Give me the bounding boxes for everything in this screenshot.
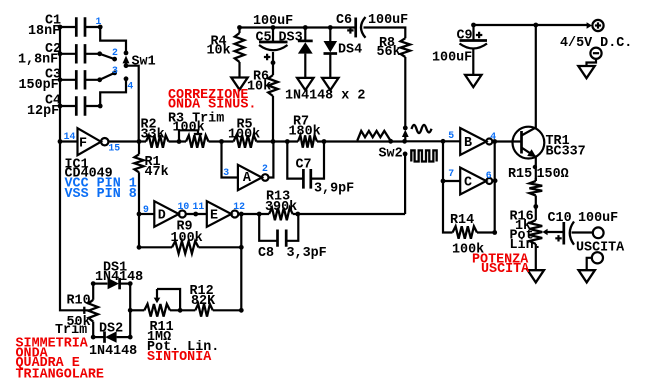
capacitor C2 [60, 44, 100, 63]
svg-text:C8: C8 [258, 246, 274, 261]
label E [210, 209, 218, 224]
svg-text:10k: 10k [207, 44, 231, 59]
label 4/5V D.C. [560, 36, 632, 51]
Sw1 contact 1 wire [100, 27, 126, 53]
wire C input drop [443, 141, 460, 181]
svg-text:1: 1 [96, 16, 102, 27]
switch Sw1 wiper arrow [123, 56, 130, 66]
junction node E out bus [239, 212, 244, 217]
label VCC PIN 1 [65, 177, 137, 192]
resistor R13 [269, 208, 293, 220]
junction node C7 right [322, 139, 327, 144]
label R4 [211, 34, 227, 49]
junction node R12 right [239, 308, 244, 313]
resistor R15 [529, 181, 542, 196]
trimmer R3 zigzag [186, 135, 209, 147]
junction node caps-bus C4 [58, 104, 63, 109]
label DS2 [99, 321, 123, 336]
triangle wave squiggle [357, 131, 390, 141]
pin 1 Sw1 [96, 16, 102, 27]
ground under DS3 [297, 78, 313, 90]
junction node squiggle end [388, 139, 393, 144]
junction node R5/R6/A-out [271, 139, 276, 144]
trimmer R10 [88, 300, 98, 322]
svg-text:100uF: 100uF [578, 211, 618, 226]
wire R14 left leg [443, 181, 453, 233]
junction node C7 left [285, 139, 290, 144]
wire TR1 emitter [535, 157, 537, 181]
label R9 [177, 219, 193, 234]
label R15 [508, 167, 532, 182]
label R6 [253, 70, 269, 85]
label C [464, 176, 472, 191]
R10 wiper T-bar [83, 307, 85, 314]
potentiometer R16 [529, 220, 542, 244]
wire R15 to R16 [535, 196, 537, 221]
op-amp inverter A [238, 165, 269, 190]
svg-text:3,3pF: 3,3pF [287, 246, 327, 261]
power feed arrowhead [587, 22, 592, 29]
Sw2 top contact node [403, 126, 408, 131]
trimmer R3 wiper loop [179, 130, 202, 141]
label R8 [379, 36, 395, 51]
pin 7 [448, 168, 454, 179]
label Sw2 [379, 146, 403, 161]
wire R9 left [139, 246, 172, 248]
svg-text:DS2: DS2 [99, 321, 123, 336]
label DS4 text [338, 43, 362, 58]
transistor TR1 [513, 127, 545, 159]
wire power bus [474, 24, 590, 26]
svg-text:B: B [464, 136, 472, 151]
diode DS4 [324, 28, 338, 78]
junction node diode box / R11 [128, 308, 133, 313]
wire R10 bottom [92, 322, 94, 338]
label R11 [150, 320, 174, 335]
op-amp inverter E [207, 201, 239, 227]
value R11 1M [147, 330, 171, 345]
value C4 12pF [27, 104, 59, 119]
svg-text:1N4148 x 2: 1N4148 x 2 [285, 88, 365, 103]
capacitor C1 [60, 17, 100, 36]
svg-text:2: 2 [262, 163, 268, 174]
label R14 [450, 213, 474, 228]
label A [243, 171, 252, 186]
svg-text:5: 5 [448, 130, 454, 141]
junction node R13 right [295, 212, 300, 217]
pin 4 [490, 131, 496, 142]
label R11 Pot. Lin. [147, 340, 219, 355]
wire R5-R7 [257, 140, 299, 142]
junction node R11 right [178, 308, 183, 313]
capacitor C7 [287, 142, 324, 189]
wire C6 to R8 [364, 28, 406, 39]
pin 9 [143, 204, 149, 215]
svg-text:2: 2 [112, 47, 118, 58]
red note ONDA [16, 346, 49, 361]
plus terminal 4/5V [592, 20, 603, 31]
value R12 82K [191, 294, 216, 309]
wire R6 bottom [272, 96, 274, 142]
junction node C5/R6 [271, 60, 276, 65]
label C9 [457, 28, 473, 43]
value R2 33k [141, 127, 165, 142]
ground under DS4 [322, 78, 338, 90]
wire R16 to ground [535, 244, 537, 270]
Sw2 lower contact node [403, 152, 408, 157]
wire right bus [494, 142, 496, 233]
svg-text:150pF: 150pF [19, 78, 59, 93]
capacitor C10 (polarized) [564, 222, 574, 245]
pin 4 Sw1 [127, 80, 133, 91]
value R3 100k [173, 121, 205, 136]
pin 2 Sw1 [112, 47, 118, 58]
capacitor C4 [60, 96, 100, 115]
svg-text:9: 9 [143, 204, 149, 215]
red note CORREZIONE [168, 88, 248, 103]
value R4 10k [207, 44, 231, 59]
svg-text:3,9pF: 3,9pF [314, 182, 354, 197]
label D [158, 209, 166, 224]
value C5 100uF [253, 14, 293, 29]
wire diode box right stub [129, 284, 131, 338]
wire A output up [269, 142, 274, 178]
wire R11-R12 [170, 309, 195, 311]
label CD4049 [65, 167, 113, 182]
svg-text:4/5V D.C.: 4/5V D.C. [560, 36, 632, 51]
wire R14 right [477, 231, 495, 233]
label B [464, 136, 472, 151]
junction node collector/power [533, 23, 538, 28]
junction node top bus C5 [271, 25, 276, 30]
Sw1 contact 1 node [98, 25, 129, 56]
resistor R1 [134, 154, 143, 172]
svg-text:E: E [210, 209, 218, 224]
wire C output [492, 180, 494, 182]
wire TR1 collector [535, 25, 537, 128]
svg-text:100k: 100k [171, 231, 203, 246]
red note SIMMETRIA [16, 336, 89, 351]
junction node caps-bus C3 [58, 77, 63, 82]
wire left vertical bus (F input / caps / feedback) [60, 27, 89, 310]
red note QUADRA E [16, 356, 80, 371]
label TR1 [546, 134, 570, 149]
wire D input [139, 213, 154, 215]
wire F output [109, 140, 146, 142]
red note ONDA SINUS. [168, 98, 256, 113]
value C9 100uF [432, 50, 472, 65]
pin 10 [178, 201, 190, 212]
junction node C9 top [471, 23, 476, 28]
red note USCITA [481, 262, 530, 277]
wire R7 to Sw2 [317, 140, 405, 142]
C5 plus sign [264, 54, 270, 60]
svg-text:100uF: 100uF [432, 50, 472, 65]
svg-text:3: 3 [112, 65, 118, 76]
value C3 150pF [19, 78, 59, 93]
label C10 [548, 211, 572, 226]
wire R1 bottom to D input / R9 [138, 172, 140, 247]
Sw1 contact 2 node [97, 51, 117, 61]
output terminal USCITA [593, 227, 604, 238]
wire R12 right [213, 309, 242, 311]
junction node DS2 left [91, 335, 96, 340]
label R16 [510, 209, 534, 224]
value C7 3,9pF [314, 182, 354, 197]
junction node top bus R4 [237, 25, 242, 30]
Sw1 contact 3 wire [100, 73, 115, 80]
svg-text:10: 10 [178, 201, 190, 212]
svg-text:10k: 10k [247, 79, 271, 94]
svg-text:18nF: 18nF [28, 24, 60, 39]
wire to R11 [130, 309, 144, 311]
wire R3-R5 [209, 140, 234, 142]
wire Sw2 pole to B input [405, 140, 460, 142]
svg-text:14: 14 [64, 131, 76, 142]
Sw1 contact 4 node [98, 76, 129, 108]
R11 wiper arrow [154, 289, 161, 303]
C6 plus sign [347, 27, 353, 33]
Sw1 contact 4 wire [100, 79, 126, 106]
minus terminal [590, 48, 601, 59]
junction node C input [441, 179, 446, 184]
value C2 1,8nF [18, 52, 58, 67]
wire E-out bus down [240, 214, 242, 310]
svg-text:D: D [158, 209, 166, 224]
label C3 [45, 68, 61, 83]
svg-text:C5: C5 [256, 30, 272, 45]
svg-text:100k: 100k [228, 127, 260, 142]
label Sw1 [132, 55, 156, 70]
junction node D input [137, 212, 142, 217]
label R10 Trim [55, 323, 87, 338]
wire A input drop [222, 142, 238, 178]
svg-text:USCITA: USCITA [481, 262, 530, 277]
label R10 [67, 293, 91, 308]
svg-text:R15: R15 [508, 167, 532, 182]
diode DS3 [298, 28, 313, 78]
wire Sw2 square contact to E-out row [404, 154, 406, 214]
wire minus to ground [587, 59, 597, 66]
junction node R14 right [492, 230, 497, 235]
svg-text:82K: 82K [191, 294, 216, 309]
junction node F input [58, 139, 63, 144]
value R5 100k [228, 127, 260, 142]
svg-text:Sw2: Sw2 [379, 146, 403, 161]
label R3 Trim [168, 111, 224, 126]
Sw1 contact 3 node [97, 71, 117, 83]
diode DS1 [93, 278, 130, 289]
label R2 [141, 117, 157, 132]
label C2 [45, 42, 61, 57]
wire R4 to ground [238, 62, 240, 78]
svg-text:C6: C6 [336, 13, 352, 28]
value R16 1k [515, 219, 531, 234]
label R12 [190, 284, 214, 299]
svg-text:12pF: 12pF [27, 104, 59, 119]
pin 6 [486, 170, 492, 181]
label C4 [45, 94, 61, 109]
value DS1 1N4148 [95, 270, 143, 285]
op-amp inverter C [460, 168, 492, 195]
junction node B/C input bus [441, 139, 446, 144]
value R6 10k [247, 79, 271, 94]
junction node R15/R16 [533, 204, 538, 209]
svg-text:F: F [79, 136, 87, 151]
wire R15 top [535, 178, 537, 181]
svg-text:1,8nF: 1,8nF [18, 52, 58, 67]
capacitor C9 (polarized) [460, 25, 488, 75]
Sw1 contact 2 wire [100, 54, 115, 59]
junction node F out / R1 / R2 / Sw1 [137, 139, 142, 144]
junction node R2/R3 wiper [177, 139, 182, 144]
pin 11 [193, 201, 205, 212]
capacitor C6 (polarized) [356, 17, 366, 38]
junction node DS1 left [91, 281, 96, 286]
junction node top bus DS3 [303, 25, 308, 30]
wire C10 to output [572, 231, 593, 233]
pin 15 [108, 142, 120, 153]
C10 plus sign [555, 235, 561, 241]
junction node R9 left [137, 245, 142, 250]
resistor R4 [235, 28, 245, 63]
label R1 [145, 155, 161, 170]
op-amp inverter D [154, 201, 186, 227]
wire B output to TR1 base [493, 140, 522, 142]
sine wave symbol [412, 125, 432, 133]
label C6 [336, 13, 352, 28]
svg-text:180k: 180k [289, 124, 321, 139]
svg-text:100uF: 100uF [368, 13, 408, 28]
junction node top bus DS4 [328, 25, 333, 30]
svg-text:SINTONIA: SINTONIA [147, 350, 212, 365]
label USCITA [576, 240, 625, 255]
label R7 [293, 114, 309, 129]
label C1 [45, 14, 61, 29]
value R15 150 [537, 167, 569, 182]
resistor R2 [146, 135, 169, 147]
svg-text:C: C [464, 176, 472, 191]
svg-text:C10: C10 [548, 211, 572, 226]
svg-text:3: 3 [223, 167, 229, 178]
label DS3 text [279, 30, 303, 45]
Sw1 pole node [124, 63, 129, 68]
wire return to ground [587, 258, 592, 270]
svg-text:12: 12 [233, 201, 245, 212]
ground under minus terminal [578, 66, 594, 78]
ground under R16 [528, 270, 544, 282]
svg-text:15: 15 [108, 142, 120, 153]
diode DS2 [93, 331, 130, 342]
capacitor C8 [259, 214, 298, 247]
svg-text:A: A [243, 171, 252, 186]
svg-text:1N4148: 1N4148 [89, 344, 137, 359]
svg-text:7: 7 [448, 168, 454, 179]
ground under R4 [231, 78, 247, 90]
value BC337 [546, 144, 586, 159]
capacitor C5 (polarized) [259, 28, 288, 51]
wire R8 down to Sw2 [404, 57, 406, 128]
svg-text:56k: 56k [377, 45, 401, 60]
label F [79, 136, 87, 151]
value R8 56k [377, 45, 401, 60]
label R5 [237, 117, 253, 132]
svg-text:R14: R14 [450, 213, 474, 228]
resistor R12 [195, 304, 213, 317]
value R7 180k [289, 124, 321, 139]
svg-text:11: 11 [193, 201, 205, 212]
pin 3 Sw1 [112, 65, 118, 76]
R16 wiper arrow [542, 229, 563, 236]
junction node R3/R5/A-in [219, 139, 224, 144]
junction node caps-bus C1 [58, 25, 63, 30]
potentiometer R11 [144, 304, 170, 317]
label R13 [266, 189, 290, 204]
svg-text:R10: R10 [67, 293, 91, 308]
label IC1 [65, 157, 89, 172]
svg-text:1N4148: 1N4148 [95, 270, 143, 285]
pin 5 [448, 130, 454, 141]
svg-text:TRIANGOLARE: TRIANGOLARE [16, 367, 104, 382]
value C1 18nF [28, 24, 60, 39]
Sw2 pole node [402, 139, 407, 144]
pin 14 [64, 131, 76, 142]
label VSS PIN 8 [65, 187, 137, 202]
pin 12 [233, 201, 245, 212]
value R1 47k [145, 165, 169, 180]
wire R1 top [138, 142, 140, 155]
junction node R9 right [239, 245, 244, 250]
capacitor C3 [60, 70, 100, 89]
svg-text:390k: 390k [265, 200, 297, 215]
junction node C out / right bus [493, 178, 498, 183]
wire R2-R3 [169, 140, 187, 142]
svg-text:100k: 100k [173, 121, 205, 136]
wire top bus [239, 26, 356, 28]
junction node D out [193, 212, 198, 217]
resistor R9 [172, 241, 199, 253]
red note SINTONIA [147, 350, 212, 365]
wire R10 top [92, 284, 94, 300]
junction node caps-bus C2 [58, 51, 63, 56]
value R10 50k [67, 315, 91, 330]
label C7 [296, 157, 312, 172]
svg-text:BC337: BC337 [546, 144, 586, 159]
junction node emitter [533, 165, 537, 169]
svg-text:4: 4 [127, 80, 133, 91]
label C8 [258, 246, 274, 261]
resistor R14 [453, 226, 478, 238]
svg-text:47k: 47k [145, 165, 169, 180]
ground under C9 [465, 75, 481, 87]
C9 plus sign [476, 32, 482, 38]
label R16 Pot [510, 228, 534, 243]
svg-text:C9: C9 [457, 28, 473, 43]
wire F input [60, 140, 78, 142]
svg-text:DS4: DS4 [338, 43, 362, 58]
value C8 3,3pF [287, 246, 327, 261]
resistor R8 [401, 38, 411, 57]
pin 2 A [262, 163, 268, 174]
op-amp inverter B [460, 128, 492, 155]
wire E output row [238, 213, 269, 215]
pin 3 A [223, 167, 229, 178]
red note TRIANGOLARE [16, 367, 104, 382]
value 1N4148 x 2 [285, 88, 365, 103]
wire Sw1 pole to F output node [126, 66, 139, 142]
red note POTENZA [472, 252, 529, 267]
svg-text:6: 6 [486, 170, 492, 181]
